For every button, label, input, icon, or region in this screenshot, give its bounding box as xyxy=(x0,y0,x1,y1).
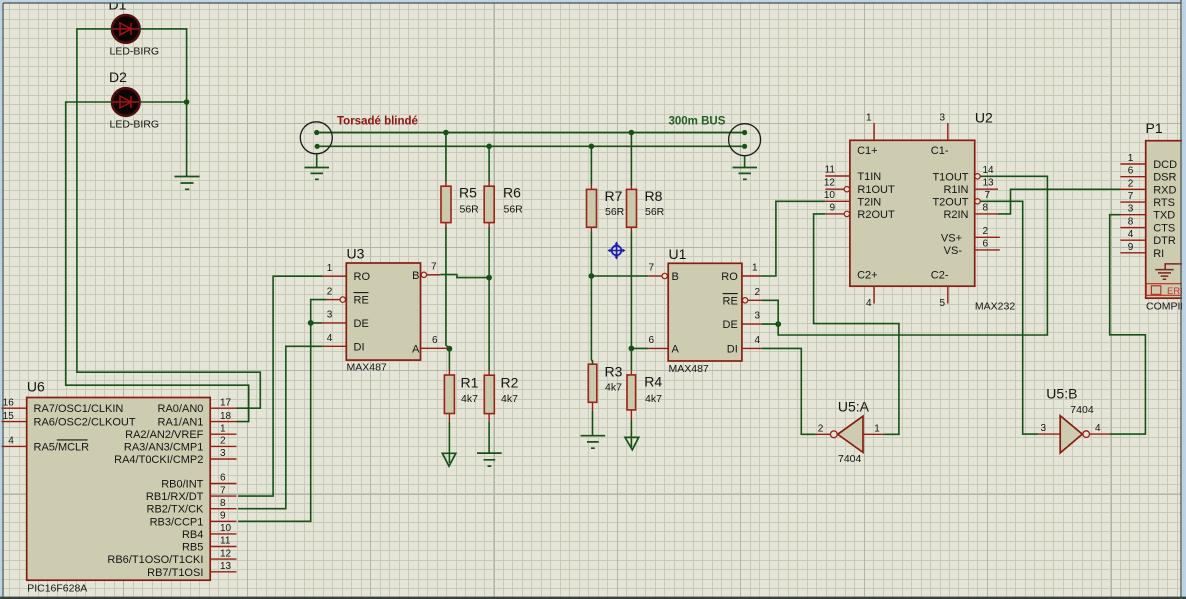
svg-text:4k7: 4k7 xyxy=(605,382,622,394)
wire D1 anode to RA0 xyxy=(77,29,260,408)
wire U1 DE junction xyxy=(762,321,781,327)
IC U1 MAX487 xyxy=(648,246,762,375)
svg-text:R1: R1 xyxy=(461,375,479,391)
svg-text:R5: R5 xyxy=(459,185,477,201)
svg-text:DI: DI xyxy=(354,341,365,353)
svg-text:4: 4 xyxy=(327,333,333,344)
ground bus left xyxy=(305,168,330,180)
svg-text:TXD: TXD xyxy=(1153,210,1175,222)
svg-text:3: 3 xyxy=(1128,204,1134,215)
svg-text:RB7/T1OSI: RB7/T1OSI xyxy=(147,567,203,579)
svg-text:RB1/RX/DT: RB1/RX/DT xyxy=(146,491,204,503)
wire U1 DI to U5:A output xyxy=(762,348,816,434)
svg-text:R3: R3 xyxy=(605,364,623,380)
svg-text:RB6/T1OSO/T1CKI: RB6/T1OSO/T1CKI xyxy=(107,554,203,566)
svg-text:6: 6 xyxy=(220,473,226,484)
svg-text:DSR: DSR xyxy=(1153,172,1176,184)
svg-text:4: 4 xyxy=(866,298,872,309)
svg-text:7: 7 xyxy=(1128,191,1134,202)
svg-text:T2IN: T2IN xyxy=(857,196,881,208)
svg-text:U1: U1 xyxy=(669,246,687,262)
svg-text:R2IN: R2IN xyxy=(943,209,968,221)
svg-text:MAX487: MAX487 xyxy=(347,362,387,374)
svg-text:56R: 56R xyxy=(605,206,625,218)
svg-text:12: 12 xyxy=(824,178,836,189)
svg-text:B: B xyxy=(412,270,419,282)
svg-text:C2-: C2- xyxy=(931,270,949,282)
svg-text:R2: R2 xyxy=(501,375,519,391)
svg-text:R1IN: R1IN xyxy=(943,184,968,196)
svg-text:DTR: DTR xyxy=(1153,235,1176,247)
junction bus R6 xyxy=(486,144,492,150)
IC U2 MAX232 xyxy=(824,110,1015,313)
svg-text:7: 7 xyxy=(648,263,654,274)
ground bus right xyxy=(733,168,758,180)
junction U3 RE/DE xyxy=(308,320,314,326)
junction bus R7 xyxy=(589,144,595,150)
svg-text:R7: R7 xyxy=(605,188,623,204)
svg-text:1: 1 xyxy=(1128,153,1134,164)
svg-text:4: 4 xyxy=(755,335,761,346)
svg-text:B: B xyxy=(672,271,679,283)
svg-text:56R: 56R xyxy=(504,204,524,216)
svg-text:1: 1 xyxy=(866,113,872,124)
svg-text:RA6/OSC2/CLKOUT: RA6/OSC2/CLKOUT xyxy=(34,417,136,429)
wire D1 cathode down xyxy=(140,29,187,177)
svg-text:4k7: 4k7 xyxy=(645,393,662,405)
svg-text:1: 1 xyxy=(874,423,880,434)
wire R6 to R2 xyxy=(488,227,490,371)
svg-text:4k7: 4k7 xyxy=(461,393,478,405)
resistor R7 xyxy=(587,185,625,232)
label Torsadé blindé xyxy=(337,116,418,128)
IC U3 MAX487 xyxy=(323,246,448,374)
svg-text:RB2/TX/CK: RB2/TX/CK xyxy=(147,504,205,516)
wire D2 cathode xyxy=(140,101,187,103)
svg-text:4: 4 xyxy=(1095,423,1101,434)
svg-text:VS-: VS- xyxy=(944,245,963,257)
svg-text:8: 8 xyxy=(220,498,226,509)
svg-text:RA1/AN1: RA1/AN1 xyxy=(158,417,204,429)
svg-text:3: 3 xyxy=(755,311,761,322)
svg-text:2: 2 xyxy=(327,286,333,297)
svg-text:5: 5 xyxy=(939,298,945,309)
svg-text:LED-BIRG: LED-BIRG xyxy=(110,46,160,58)
svg-text:RO: RO xyxy=(721,271,738,283)
svg-text:VS+: VS+ xyxy=(941,232,962,244)
svg-text:U5:B: U5:B xyxy=(1046,386,1077,402)
connector P1 COMPIM xyxy=(1120,120,1186,313)
svg-text:1: 1 xyxy=(327,263,333,274)
wire U1 RE down xyxy=(762,300,778,324)
svg-text:DE: DE xyxy=(354,318,369,330)
wire R3 to ground xyxy=(592,411,594,436)
svg-text:13: 13 xyxy=(983,178,995,189)
junction LED cathodes xyxy=(184,99,190,105)
svg-text:R8: R8 xyxy=(645,188,663,204)
svg-text:R1OUT: R1OUT xyxy=(857,184,895,196)
resistor R2 xyxy=(484,371,518,422)
svg-text:R4: R4 xyxy=(644,374,662,390)
svg-text:300m BUS: 300m BUS xyxy=(669,116,726,128)
svg-text:3: 3 xyxy=(327,310,333,321)
svg-text:11: 11 xyxy=(220,536,231,547)
svg-text:14: 14 xyxy=(983,165,995,176)
wire bus to R7 xyxy=(590,146,592,185)
bus terminal left xyxy=(300,122,332,167)
wire U1 B to R7 xyxy=(591,275,648,277)
svg-text:3: 3 xyxy=(220,448,226,459)
wire U1 A to R8 xyxy=(631,347,648,349)
wire D2 anode to RA1 xyxy=(66,102,249,422)
ground LEDs xyxy=(175,177,200,190)
ground COMPIM internal xyxy=(1155,264,1186,279)
ground arrow R4 xyxy=(625,437,639,449)
svg-text:RB5: RB5 xyxy=(182,542,203,554)
ground R2 xyxy=(477,453,502,466)
svg-text:2: 2 xyxy=(755,287,761,298)
svg-text:RA5/MCLR: RA5/MCLR xyxy=(34,441,90,453)
wire R7 to R3 xyxy=(591,232,592,365)
svg-text:6: 6 xyxy=(432,335,438,346)
svg-text:2: 2 xyxy=(818,423,824,434)
wire U1 RO to U2 T2IN xyxy=(760,201,825,276)
ground R3 xyxy=(581,436,606,449)
junction U1 pin B wire xyxy=(589,273,595,279)
svg-text:9: 9 xyxy=(829,202,835,213)
svg-text:6: 6 xyxy=(983,238,989,249)
wire U2 R2IN to P1 RXD xyxy=(998,189,1120,214)
svg-text:R2OUT: R2OUT xyxy=(857,209,895,221)
svg-text:12: 12 xyxy=(220,548,232,559)
svg-text:7404: 7404 xyxy=(838,453,862,465)
svg-text:2: 2 xyxy=(1128,178,1134,189)
svg-text:18: 18 xyxy=(220,411,232,422)
svg-text:R6: R6 xyxy=(503,185,521,201)
svg-text:C1-: C1- xyxy=(931,145,949,157)
wire U2 R2OUT to U5:A input xyxy=(814,214,899,434)
svg-text:2: 2 xyxy=(983,226,989,237)
svg-text:RA3/AN3/CMP1: RA3/AN3/CMP1 xyxy=(124,441,203,453)
svg-text:3: 3 xyxy=(1040,423,1046,434)
wire U3 DE to RB3 xyxy=(238,323,323,521)
svg-text:15: 15 xyxy=(3,411,15,422)
svg-text:T2OUT: T2OUT xyxy=(932,196,968,208)
resistor R8 xyxy=(627,185,665,232)
svg-text:RA4/T0CKI/CMP2: RA4/T0CKI/CMP2 xyxy=(114,454,203,466)
svg-text:D2: D2 xyxy=(109,69,127,85)
svg-text:RXD: RXD xyxy=(1153,184,1176,196)
svg-text:56R: 56R xyxy=(460,204,480,216)
svg-text:C2+: C2+ xyxy=(857,270,878,282)
junction bus R5 xyxy=(443,130,449,136)
svg-text:CTS: CTS xyxy=(1153,223,1175,235)
origin marker xyxy=(608,242,626,260)
resistor R4 xyxy=(627,370,662,420)
wire R1 to ground xyxy=(448,422,450,463)
svg-text:T1IN: T1IN xyxy=(857,171,881,183)
junction U1 pin A wire xyxy=(629,346,635,352)
svg-text:RA2/AN2/VREF: RA2/AN2/VREF xyxy=(125,429,204,441)
svg-text:10: 10 xyxy=(220,523,232,534)
svg-text:PIC16F628A: PIC16F628A xyxy=(27,583,87,595)
svg-text:U6: U6 xyxy=(27,379,45,395)
svg-text:RTS: RTS xyxy=(1153,197,1175,209)
svg-text:U3: U3 xyxy=(347,246,365,262)
wire U3 B to R6 xyxy=(440,275,489,278)
svg-text:7: 7 xyxy=(431,262,437,273)
LED D1 xyxy=(109,0,160,57)
svg-text:RO: RO xyxy=(354,271,371,283)
svg-text:RA0/AN0: RA0/AN0 xyxy=(158,403,204,415)
svg-text:9: 9 xyxy=(220,511,226,522)
svg-text:RA7/OSC1/CLKIN: RA7/OSC1/CLKIN xyxy=(34,403,124,415)
wire U2 T2OUT to U5:B input xyxy=(980,201,1038,434)
label 300m BUS xyxy=(669,116,726,128)
wire U3 RE down xyxy=(311,300,327,323)
wire bus to R8 xyxy=(630,133,632,186)
svg-text:RE: RE xyxy=(723,295,738,307)
svg-text:T1OUT: T1OUT xyxy=(932,171,968,183)
inverter U5:B 7404 xyxy=(1038,386,1109,453)
svg-text:10: 10 xyxy=(824,190,836,201)
svg-text:7404: 7404 xyxy=(1070,404,1094,416)
svg-text:RB4: RB4 xyxy=(182,529,203,541)
svg-text:A: A xyxy=(412,343,420,355)
wire bus line B (bottom) xyxy=(320,145,743,147)
svg-text:9: 9 xyxy=(1128,242,1134,253)
ground arrow R1 xyxy=(442,453,456,466)
svg-text:U2: U2 xyxy=(975,110,993,126)
svg-text:2: 2 xyxy=(220,436,226,447)
svg-text:RB0/INT: RB0/INT xyxy=(161,479,203,491)
svg-text:7: 7 xyxy=(985,190,991,201)
svg-text:6: 6 xyxy=(1128,166,1134,177)
junction bus R8 xyxy=(629,130,635,136)
svg-text:DI: DI xyxy=(727,343,738,355)
svg-text:RB3/CCP1: RB3/CCP1 xyxy=(150,516,204,528)
resistor R5 xyxy=(441,182,479,228)
svg-text:P1: P1 xyxy=(1146,120,1163,136)
wire U1 RE/DE to U2 T1OUT xyxy=(778,176,1047,335)
wire U3 RO to RB1 xyxy=(238,276,323,496)
LED D2 xyxy=(109,69,159,131)
ERROR indicator xyxy=(1146,284,1186,297)
resistor R6 xyxy=(484,182,523,228)
svg-text:RI: RI xyxy=(1153,248,1164,260)
svg-text:A: A xyxy=(672,343,680,355)
svg-text:16: 16 xyxy=(3,397,15,408)
resistor R1 xyxy=(444,370,478,422)
svg-text:6: 6 xyxy=(648,335,654,346)
wire U3 DI to RB2 xyxy=(238,346,323,508)
svg-text:MAX232: MAX232 xyxy=(975,301,1015,313)
junction U3 pin A xyxy=(447,346,453,352)
wire R2 to ground xyxy=(488,422,490,453)
wire bus to R5 xyxy=(445,133,447,182)
bus terminal right xyxy=(729,124,761,168)
svg-text:MAX487: MAX487 xyxy=(669,363,709,375)
svg-text:U5:A: U5:A xyxy=(838,399,870,415)
wire U5:B output to P1 TXD xyxy=(1109,215,1145,434)
svg-text:RE: RE xyxy=(354,295,369,307)
wire R8 to R4 xyxy=(630,232,632,371)
svg-text:13: 13 xyxy=(220,561,232,572)
svg-text:Torsadé blindé: Torsadé blindé xyxy=(337,116,418,128)
wire R4 to ground xyxy=(630,421,632,448)
resistor R3 xyxy=(588,364,622,412)
svg-text:8: 8 xyxy=(983,202,989,213)
svg-text:4: 4 xyxy=(1128,229,1134,240)
MCU U6 PIC16F628A xyxy=(2,379,237,595)
wire bus line A (top) xyxy=(319,132,742,134)
svg-text:1: 1 xyxy=(220,423,226,434)
wire R5 to junction A xyxy=(446,227,450,370)
inverter U5:A 7404 xyxy=(816,399,884,466)
svg-text:4k7: 4k7 xyxy=(501,393,518,405)
svg-text:7: 7 xyxy=(220,485,226,496)
svg-text:LED-BIRG: LED-BIRG xyxy=(110,119,160,131)
svg-text:8: 8 xyxy=(1128,217,1134,228)
svg-text:17: 17 xyxy=(220,397,232,408)
svg-text:COMPIM: COMPIM xyxy=(1146,301,1186,313)
svg-text:DCD: DCD xyxy=(1153,159,1177,171)
svg-text:DE: DE xyxy=(723,319,738,331)
svg-text:C1+: C1+ xyxy=(857,145,878,157)
svg-text:4: 4 xyxy=(8,436,14,447)
svg-text:3: 3 xyxy=(939,113,945,124)
wire bus to R6 xyxy=(488,146,490,181)
svg-text:1: 1 xyxy=(752,263,758,274)
svg-text:11: 11 xyxy=(825,165,836,176)
junction U3 pin B wire xyxy=(486,275,492,281)
svg-text:56R: 56R xyxy=(645,206,665,218)
